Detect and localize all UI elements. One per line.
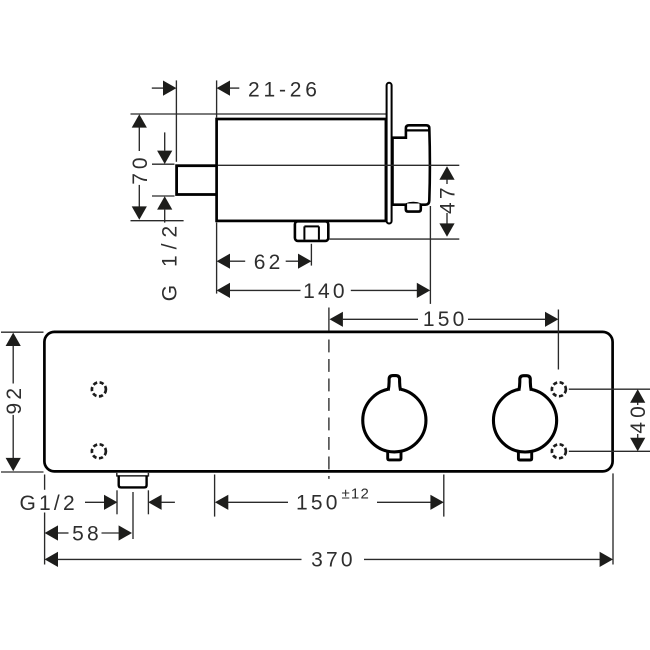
svg-text:G1/2: G1/2 (20, 492, 78, 515)
right knob bottom tab (518, 447, 531, 460)
left knob bottom tab (388, 447, 401, 460)
svg-text:370: 370 (311, 548, 356, 571)
dim 21-26 extension lines (175, 80, 177, 161)
wall pipe protrusion (177, 166, 218, 195)
dim 62 extension lines (216, 223, 218, 294)
dim 150±12 (215, 495, 228, 510)
body top thin edge line + 70 top extension line (131, 113, 387, 115)
dim 140 (217, 283, 230, 298)
svg-text:92: 92 (3, 385, 26, 415)
dim 70 extension lines (131, 220, 184, 222)
G 1/2 leader (top view) (164, 132, 166, 150)
panel (44, 332, 612, 472)
svg-text:150: 150 (423, 308, 468, 331)
wall unit bottom tab (406, 204, 421, 212)
left knob (363, 389, 426, 452)
dim 40 extension lines (569, 388, 650, 390)
dim 92 extension lines (1, 331, 44, 333)
svg-text:140: 140 (303, 280, 348, 303)
dashed hole circles right (552, 382, 566, 396)
right knob top nub (519, 376, 531, 394)
dim 21-26 (152, 87, 164, 89)
dim 58 (45, 525, 58, 540)
dim 58 extension line (outlet center) (132, 492, 134, 539)
dim 150 top (330, 312, 343, 327)
svg-text:58: 58 (72, 522, 102, 545)
wall unit cap line (406, 129, 429, 131)
dim 370 extension lines (44, 475, 46, 490)
svg-text:47: 47 (437, 184, 460, 214)
dim 70 (132, 114, 147, 127)
svg-text:70: 70 (129, 153, 152, 184)
svg-text:40: 40 (627, 402, 650, 433)
dim 140 extension line right (429, 206, 431, 304)
left knob top nub (388, 376, 400, 394)
centerline dashed (328, 340, 330, 479)
escutcheon plate (387, 83, 392, 224)
mixer body (217, 119, 386, 221)
outlet nut chamfer lines (303, 226, 305, 239)
wall unit with top cap and bottom tab arc (393, 125, 430, 204)
dim 40 (630, 389, 645, 402)
centerline top solid segment (328, 308, 330, 332)
dim 47 (439, 166, 454, 179)
front outlet body (119, 476, 147, 487)
svg-text:150: 150 (296, 492, 341, 515)
svg-text:62: 62 (254, 251, 284, 274)
dashed hole circles left (92, 382, 106, 396)
svg-text:G 1/2: G 1/2 (159, 220, 182, 301)
right knob (493, 389, 556, 452)
svg-text:±12: ±12 (342, 486, 371, 503)
front outlet lip (117, 473, 149, 476)
dim 47 bottom extension line (329, 238, 459, 240)
outlet nut under body (295, 221, 328, 241)
dim 62 (217, 254, 230, 269)
dim 150 top: extension line right (557, 310, 559, 370)
dim 150±12 extension lines (214, 475, 216, 517)
dim 370 (45, 552, 58, 567)
svg-text:21-26: 21-26 (248, 78, 321, 101)
pipe centerline thin across body (47 top extension) (218, 164, 459, 166)
G1/2 extension lines (116, 490, 118, 514)
outlet nut collar (304, 225, 319, 227)
dim 92 (6, 333, 21, 346)
